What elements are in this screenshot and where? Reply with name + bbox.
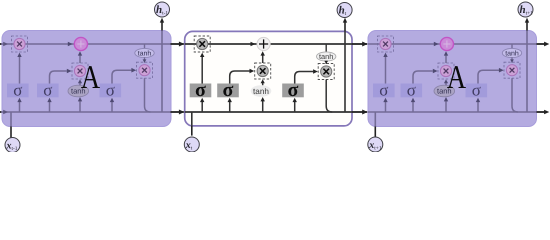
wire: hidden-state line through right cell [368,111,537,113]
sigma box: forget gate (left) [7,80,29,99]
svg-text:tanh: tanh [319,52,333,61]
wire: cell-state line image-left entry [0,43,3,45]
svg-text:tanh: tanh [253,87,269,96]
op: cell-state pointwise add (left) [74,37,87,50]
svg-text:σ: σ [407,80,416,99]
svg-text:σ: σ [472,80,481,99]
svg-text:σ: σ [379,80,388,99]
op: forget-gate pointwise multiply (left) [12,36,28,52]
op: forget-gate pointwise multiply (right) [378,36,394,52]
cell body: middle LSTM module [185,31,352,126]
wire: cell line down into tanh oval (right) [511,44,513,49]
gate risers from hidden line (left) [19,101,21,112]
node x_t+1 circle [368,137,383,152]
tanh layer oval (right) [434,85,455,97]
wire: hidden line gap left->middle [171,111,184,113]
wire: multiply up into add (left) [79,53,81,63]
wire: tanh oval down into output multiply (left) [144,57,146,62]
op: output-gate pointwise multiply (middle) [318,64,334,80]
wire: x riser from x_t+1 [374,112,376,127]
sigma box: forget gate (middle) [190,79,212,101]
wire: output sigma bend into output multiply (middle) [295,72,314,84]
svg-text:σ: σ [195,79,206,101]
gate risers from hidden line (middle) [201,101,203,112]
tanh layer oval (middle) [251,85,272,97]
wire: tanh up into input multiply (right) [445,81,447,85]
wire: output sigma bend into output multiply (right) [478,70,499,83]
node h_t-1 circle [155,2,170,17]
sigma box: input gate (left) [37,80,59,99]
tanh layer oval (left) [68,85,89,97]
sigma box: forget gate (right) [373,80,395,99]
wire: cell-state line through right cell [368,43,537,45]
wire: multiply up into add (right) [445,53,447,63]
wire: input sigma bend into multiply (middle) [230,71,250,84]
wire: tanh up into input multiply (middle) [262,81,264,85]
svg-text:σ: σ [13,80,22,99]
wire: tanh oval down into output multiply (right) [511,57,513,62]
svg-text:tanh: tanh [138,49,152,57]
wire: output multiply down to hidden line (middle) [326,80,332,113]
wire: multiply up into add (middle) [262,53,264,63]
wire: tanh up into input multiply (left) [79,81,81,85]
sigma box: input gate (middle) [217,79,239,101]
cell body: left LSTM module [2,31,171,127]
tanh oval on output path (middle) [317,52,336,61]
node h_t+1 circle [518,2,533,17]
wire: hidden-state line through middle cell [185,111,352,113]
wire: hidden line gap middle->right [352,111,367,113]
wire: cell line gap left->middle [171,43,184,45]
op: cell-state pointwise add (right) [440,37,453,50]
wire: h riser to h_t+1 [526,31,528,113]
svg-text:σ: σ [43,80,52,99]
wire: tanh oval down into output multiply (middle) [325,61,327,64]
cell body: right LSTM module [368,31,537,127]
sigma box: output gate (middle) [282,79,304,101]
arrow into add on cell line (right) [434,42,439,47]
wire: forget sigma up to multiply (left) [19,55,21,84]
op: forget-gate pointwise multiply (middle) [194,36,210,52]
arrow into add on cell line (middle) [251,42,256,47]
node h_t circle [337,3,352,18]
op: output-gate pointwise multiply (right) [504,62,520,78]
svg-text:A: A [81,59,100,96]
svg-text:σ: σ [223,79,234,101]
wire: output multiply down to hidden line (right) [512,78,518,112]
gate risers from hidden line (right) [385,101,387,112]
svg-text:A: A [447,59,466,96]
tanh oval on output path (left) [135,48,154,57]
wire: cell line exit right edge [537,43,545,45]
wire: cell-state line through left cell [2,43,171,45]
label A (right) [447,59,466,96]
wire: hidden line exit right edge [537,111,545,113]
arrow into add on cell line (left) [68,42,73,47]
sigma box: input gate (right) [401,80,423,99]
node x_t-1 circle [5,138,20,153]
wire: x riser from x_t-1 [10,112,12,127]
label A (left) [81,59,100,96]
tanh oval on output path (right) [502,48,521,57]
wire: output sigma bend into output multiply (left) [112,70,132,83]
wire: hidden-state line through left cell [2,111,171,113]
wire: h riser to h_t [344,31,346,112]
wire: cell-state line through middle cell [185,43,352,45]
wire: h riser to h_t-1 [161,31,163,113]
node x_t circle [184,137,199,152]
op: input-gate pointwise multiply (left) [72,63,88,79]
wire: cell line down into tanh oval (left) [144,44,146,49]
sigma box: output gate (right) [466,80,488,99]
sigma box: output gate (left) [100,80,122,99]
wire: input sigma bend into multiply (left) [50,71,67,84]
wire: hidden line image-left entry [0,111,3,113]
op: input-gate pointwise multiply (right) [438,63,454,79]
svg-text:σ: σ [106,80,115,99]
op: output-gate pointwise multiply (left) [137,62,153,78]
arrowhead: entry into left cell (tinted) [3,42,8,47]
wire: input sigma bend into multiply (right) [413,71,433,84]
wire: x riser from x_t [191,112,193,126]
wire: forget sigma up to multiply (middle) [201,55,203,84]
op: cell-state pointwise add (middle) [257,37,270,50]
wire: cell line gap middle->right [352,43,367,45]
wire: forget sigma up to multiply (right) [385,55,387,84]
svg-text:tanh: tanh [505,49,519,57]
wire: cell line down into tanh oval (middle) [325,44,327,52]
wire: output multiply down to hidden line (left) [145,78,151,112]
op: input-gate pointwise multiply (middle) [255,63,271,79]
svg-text:σ: σ [288,79,299,101]
